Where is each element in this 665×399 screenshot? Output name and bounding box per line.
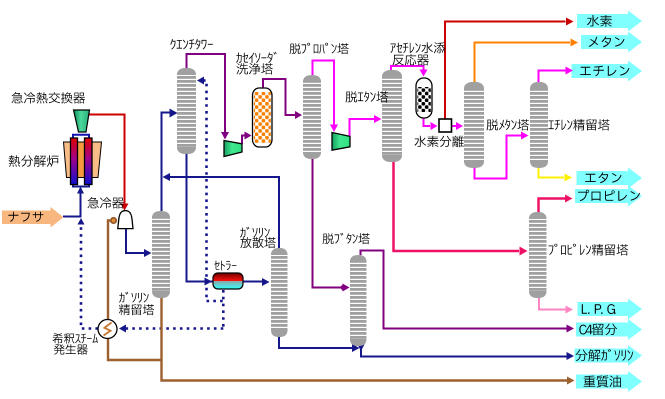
hydrogen separation box (水素分離) [439,119,452,132]
acetylene hydrogenation reactor (アセチレン水添反応器) [416,78,432,118]
label 精留塔 [119,304,154,315]
wire caustic tower overhead to depropanizer [263,79,296,115]
label 熱分解炉 [9,155,59,167]
wire demethanizer bottoms to ethylene tower [475,136,522,179]
label 脱ﾌﾞﾀﾝ塔 [323,233,370,244]
column ethylene tower (エチレン精留塔) [530,82,548,168]
wire compressor C2 discharge to deethanizer [350,119,375,136]
wire dotted to steam generator [126,327,223,330]
label 脱ｴﾀﾝ塔 [346,91,389,102]
wire quencher to gasoline fractionator [126,228,146,253]
wire ethylene tower bottoms to ethane output [539,168,565,178]
label 希釈ｽﾁｰﾑ [53,333,98,344]
output arrow ETHYLENE (エチレン) [572,61,643,82]
label 脱ﾒﾀﾝ塔 [487,119,530,130]
label 反応器 [393,54,429,65]
furnace tube right [85,138,93,185]
cracking furnace center column [78,143,85,178]
column deethanizer (脱エタン塔) [382,70,402,162]
naphtha feed arrow (ナフサ) [2,207,64,228]
label ナフサ [8,212,43,222]
label ｶｾｲｿｰﾀﾞ [236,52,277,63]
wire deethanizer overhead to acetylene reactor [391,66,424,70]
wire depropanizer overhead to compressor C2 [313,61,335,126]
label ｴﾁﾚﾝ精留塔 [548,119,609,130]
quench heat exchanger (green trapezoid) [74,110,90,132]
output arrow L.P.G. [578,299,643,320]
wire naphtha feed to furnace [63,188,81,217]
column quench tower (クエンチタワー) [177,68,196,154]
label 急冷器 [88,197,124,209]
wire compressor C1 discharge to caustic tower [242,136,246,145]
wire quench tower bottoms to settler and stripper [187,152,263,282]
wire stripper overhead return [168,177,279,248]
label ｶﾞｿﾘﾝ [119,292,149,303]
wire demethanizer overhead to methane output [475,43,571,83]
output arrow METHANE (メタン) [581,32,642,53]
wire stripper bottoms [279,335,353,348]
wire dotted junction horizontal [207,300,224,303]
wire propylene tower overhead to propylene output [539,199,566,213]
wire dotted steam from quench tower [197,77,204,85]
compressor C2 [332,133,350,151]
label 発生器 [54,344,88,355]
label 急冷熱交換器 [12,92,86,104]
wire debutanizer bottoms to cracked gasoline [361,344,568,357]
wire quench tower overhead to compressor C1 [187,54,226,132]
label 放散塔 [240,237,275,248]
wire deethanizer bottoms to propylene tower [394,162,520,251]
wire gasoline fractionator overhead to quench tower [162,113,171,212]
wire hydrogen separation to hydrogen output [445,22,566,120]
output arrow HYDROGEN (水素) [577,11,642,32]
wire furnace top header [73,135,89,139]
label ﾌﾟﾛﾋﾟﾚﾝ精留塔 [549,244,629,256]
wire hydrogen separation to demethanizer [452,125,457,127]
wire quench exchanger to quencher [88,115,125,205]
wire fractionator bottoms to heavy oil output [162,298,568,381]
wire dotted settler drain [222,290,225,329]
column gasoline stripper (ガソリン放散塔) [271,248,288,337]
compressor C1 (cracked gas) [224,141,242,157]
label ｸｴﾝﾁﾀﾜｰ [170,39,213,50]
node quencher drain ring [111,218,116,223]
column propylene tower (プロピレン精留塔) [529,212,547,298]
cracking furnace body [64,142,102,178]
wire acetylene reactor to hydrogen separation [424,118,431,126]
output arrow heavy oil (重質油) [576,371,642,392]
label ｱｾﾁﾚﾝ水添 [390,42,445,53]
wire dotted steam riser to naphtha junction [81,224,98,329]
output arrow ETHANE (エタン) [577,168,643,189]
label 脱ﾌﾟﾛﾊﾟﾝ塔 [290,43,349,54]
output arrow cracked gasoline (分解ガソリン) [575,345,643,366]
label ｶﾞｿﾘﾝ [240,227,270,238]
settler drum (セトラー) [213,273,243,289]
output arrow C4 fraction (C4留分) [576,319,642,340]
wire propylene tower bottoms to LPG output [539,298,566,310]
column caustic wash tower (カセイソーダ洗浄塔) [253,88,273,147]
furnace tube left [71,138,78,185]
label 洗浄塔 [237,63,273,75]
column debutanizer (脱ブタン塔) [350,255,367,346]
label 水素分離 [415,136,465,148]
column depropanizer (脱プロパン塔) [303,75,321,159]
quencher bell [118,211,133,229]
label ｾﾄﾗｰ [214,261,236,271]
wire depropanizer bottoms to debutanizer [313,159,342,288]
column gasoline fractionator (ガソリン精留塔) [152,211,170,298]
wire debutanizer overhead to C4 output [361,251,568,329]
wire quencher blowdown [108,221,161,361]
output arrow PROPYLENE (プロピレン) [575,186,642,207]
dilution steam generator exchanger [98,320,117,339]
column demethanizer (脱メタン塔) [464,82,484,168]
wire furnace bottom header [73,183,89,187]
wire ethylene tower overhead to ethylene output [539,71,567,83]
